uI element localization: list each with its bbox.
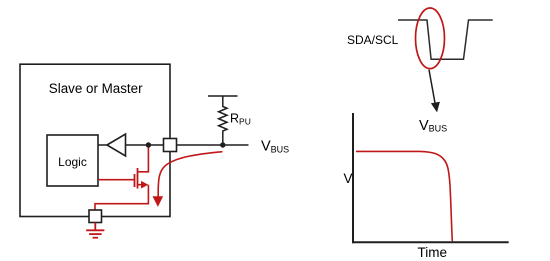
ground symbol (red) [86,223,104,238]
svg-text:SDA/SCL: SDA/SCL [347,33,399,47]
Time axis (horizontal) [352,241,509,243]
pad (I/O pin square) [164,139,177,152]
wire: pad to VBUS [177,144,249,146]
logic block [47,135,98,186]
junction dot (drain node) [146,142,151,147]
svg-text:V: V [344,171,353,186]
svg-text:Logic: Logic [58,155,87,169]
wire: logic output to buffer tip [98,144,107,146]
svg-text:Time: Time [418,245,448,260]
falling-edge highlight ellipse (red) [416,8,445,69]
junction dot (resistor / VBUS) [220,142,225,147]
V axis (vertical) [352,113,354,243]
svg-text:Slave or Master: Slave or Master [49,81,143,96]
ground pad (square) [89,210,102,223]
NMOS transistor (open-drain, red) [98,147,148,189]
resistor RPU (pull-up) [208,96,238,145]
arrow: ellipse to VBUS label [429,70,435,103]
current flow arrow (red, curved) [158,152,222,197]
SDA/SCL waveform [398,20,493,59]
enclosure box (Slave or Master) [20,64,170,216]
input buffer U2 (triangle) [107,134,126,156]
wire: source to ground pad (red) [95,185,148,210]
wire: buffer to pad [126,144,165,146]
VBUS decay curve (red) [356,151,452,241]
